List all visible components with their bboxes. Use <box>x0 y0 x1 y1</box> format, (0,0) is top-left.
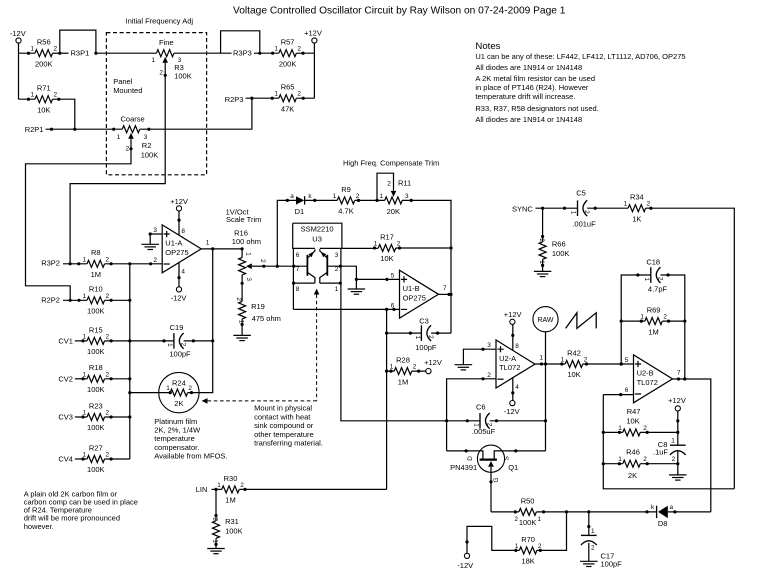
svg-text:C5: C5 <box>576 188 586 197</box>
wire Q1 drain row <box>447 450 478 452</box>
svg-text:47K: 47K <box>281 104 294 113</box>
svg-text:RAW: RAW <box>537 317 553 324</box>
capacitor C6 .005uF <box>479 413 481 429</box>
wire R70.2 up to R50 row <box>537 512 567 551</box>
svg-text:1: 1 <box>472 423 479 427</box>
wire -12V to R56 and R71 <box>19 43 36 99</box>
potentiometer R3 100K (Fine) <box>156 50 174 57</box>
junction dot R16 pin3 <box>241 282 244 285</box>
svg-text:however.: however. <box>24 522 54 531</box>
svg-text:10K: 10K <box>37 105 50 114</box>
svg-text:k: k <box>651 504 655 511</box>
junction dot R31 bottom <box>214 543 217 546</box>
svg-text:100K: 100K <box>552 249 570 258</box>
junction dots R10 row <box>69 299 72 302</box>
sawtooth waveform icon <box>566 313 597 329</box>
svg-text:A 2K metal film resistor can b: A 2K metal film resistor can be used <box>475 74 595 83</box>
junction dots feedback left rail <box>602 431 605 434</box>
svg-text:2: 2 <box>240 482 244 489</box>
svg-text:+12V: +12V <box>170 197 188 206</box>
ground U2-A pin3 <box>455 364 473 366</box>
wire R10.2 to summing node <box>105 299 130 301</box>
junction dots SYNC row <box>541 207 544 210</box>
svg-text:7: 7 <box>443 285 447 292</box>
resistor R57 200K <box>279 50 297 57</box>
svg-text:R10: R10 <box>89 285 103 294</box>
wire RAW column <box>545 332 547 451</box>
svg-text:1M: 1M <box>398 377 408 386</box>
resistor R23 100K <box>87 414 105 421</box>
junction dots R50 row <box>514 510 517 513</box>
junction dot R2 pin2 <box>129 147 132 150</box>
svg-text:4: 4 <box>181 269 185 276</box>
svg-text:R70: R70 <box>521 535 535 544</box>
svg-text:1: 1 <box>335 286 339 293</box>
wire R47 leads <box>603 431 678 433</box>
svg-text:C19: C19 <box>170 323 184 332</box>
svg-text:a: a <box>290 193 294 200</box>
resistor R27 100K <box>87 456 105 463</box>
svg-text:R47: R47 <box>627 407 641 416</box>
svg-text:-12V: -12V <box>504 407 520 416</box>
svg-text:100K: 100K <box>87 385 105 394</box>
junction dots C19 row <box>162 339 165 342</box>
wire R2P3 to R65.1 <box>246 97 279 99</box>
IC box U3 SSM2210 <box>293 223 342 248</box>
thermistor R24 2K (circled) <box>159 372 199 412</box>
junction dots C6 row <box>466 419 469 422</box>
svg-text:2: 2 <box>584 357 588 364</box>
wire U2-A pin3 to ground <box>463 349 496 365</box>
wire R2P2 to R10.1 <box>63 299 87 301</box>
wire C17 tap <box>588 512 590 536</box>
wire Q1 source row <box>505 450 546 452</box>
svg-text:Notes: Notes <box>475 41 500 52</box>
junction dots servo vertical <box>385 332 388 335</box>
wire U2-A pin2 column <box>447 379 496 451</box>
svg-text:sink compound or: sink compound or <box>254 421 314 430</box>
svg-text:100pF: 100pF <box>415 343 437 352</box>
junction dots R17 row <box>373 246 376 249</box>
wire SYNC to C5 <box>536 207 578 209</box>
wire R28 leads <box>387 370 426 372</box>
svg-text:C18: C18 <box>646 258 660 267</box>
svg-text:Available from MFOS.: Available from MFOS. <box>154 452 227 461</box>
wire D1 cathode to R9.1 <box>305 199 338 201</box>
ground below R31 <box>207 548 225 550</box>
svg-text:1: 1 <box>117 134 121 141</box>
wire R3P1 to R3 pin1 <box>96 52 157 54</box>
trimmer R16 100 ohm <box>239 257 246 275</box>
resistor R8 1M <box>87 260 105 267</box>
wire C18 loop <box>621 275 685 379</box>
svg-text:R27: R27 <box>89 443 103 452</box>
junction dot Q1 source <box>514 449 517 452</box>
wire +12V to C8 <box>677 411 679 445</box>
svg-text:1: 1 <box>591 528 595 535</box>
resistor R10 100K <box>87 297 105 304</box>
potentiometer R2 100K (Coarse) <box>122 126 140 133</box>
svg-text:Mount in physical: Mount in physical <box>254 404 312 413</box>
svg-text:2: 2 <box>583 210 590 214</box>
svg-text:3: 3 <box>405 193 409 200</box>
svg-text:D8: D8 <box>658 519 668 528</box>
svg-text:SYNC: SYNC <box>512 205 533 214</box>
junction dots wiper row <box>262 265 265 268</box>
svg-text:S: S <box>503 456 510 460</box>
ground below C17 <box>580 560 598 562</box>
svg-text:a: a <box>670 504 674 511</box>
junction dot U3 pin2 <box>339 265 342 268</box>
wire R16 pin3 to R19 <box>241 275 243 302</box>
junction dots R46 row <box>618 462 621 465</box>
wire R2P1 row to R2 pin1 <box>46 128 123 130</box>
junction dots R42.2 row <box>585 362 588 365</box>
resistor R71 10K <box>35 96 53 103</box>
resistor R30 1M <box>222 486 240 493</box>
svg-text:1: 1 <box>624 201 628 208</box>
resistor R15 100K <box>87 337 105 344</box>
junction dot R70.2 <box>539 549 542 552</box>
svg-text:2: 2 <box>106 452 110 459</box>
resistor R66 100K <box>539 242 546 260</box>
svg-text:2: 2 <box>514 516 518 523</box>
svg-text:TL072: TL072 <box>637 378 658 387</box>
svg-text:6: 6 <box>296 252 300 259</box>
svg-text:R69: R69 <box>647 306 661 315</box>
svg-text:R3P3: R3P3 <box>233 48 252 57</box>
svg-text:2: 2 <box>643 456 647 463</box>
junction dots summing vertical <box>128 299 131 302</box>
wire U3 pin8 lead <box>293 283 315 309</box>
svg-text:in place of PT146 (R24). Howev: in place of PT146 (R24). However <box>475 83 588 92</box>
junction dot D1 anode <box>286 199 289 202</box>
transistor U3 left half <box>306 255 308 276</box>
svg-text:1: 1 <box>30 92 34 99</box>
svg-text:U3: U3 <box>312 234 322 243</box>
svg-text:2: 2 <box>106 371 110 378</box>
svg-text:U2-B: U2-B <box>637 369 654 378</box>
svg-text:2: 2 <box>397 241 401 248</box>
wire U2-B pin6 row <box>603 394 633 396</box>
svg-text:2K: 2K <box>628 471 637 480</box>
resistor R18 100K <box>87 375 105 382</box>
junction dot R30.2 <box>243 488 246 491</box>
junction dot C17 top <box>587 525 590 528</box>
wire R30.2 to servo vertical <box>239 488 386 490</box>
wire R15.2 to summing node <box>105 340 130 342</box>
svg-text:100 ohm: 100 ohm <box>232 237 261 246</box>
junction dot R34.2 <box>649 207 652 210</box>
svg-text:1: 1 <box>83 410 87 417</box>
svg-text:R71: R71 <box>37 84 51 93</box>
capacitor C19 100pF <box>173 333 175 349</box>
svg-text:1: 1 <box>643 278 650 282</box>
svg-text:1: 1 <box>380 193 384 200</box>
svg-text:10K: 10K <box>626 416 639 425</box>
wire R50 row to D8 <box>491 511 656 513</box>
svg-text:C6: C6 <box>476 402 486 411</box>
wire jog over R3P1 <box>60 30 96 53</box>
svg-text:8: 8 <box>181 228 185 235</box>
wire R19 to ground <box>241 319 243 335</box>
wire U1-B pin6 row <box>293 308 399 310</box>
svg-text:-12V: -12V <box>171 294 187 303</box>
junction dots pin6 row <box>385 308 388 311</box>
resistor R70 18K <box>519 547 537 554</box>
junction dots U2-A pin2 <box>481 377 484 380</box>
svg-text:R3P1: R3P1 <box>71 48 90 57</box>
wire R16 wiper row <box>264 265 308 267</box>
junction dots R2P3 row <box>250 97 253 100</box>
svg-text:U1 can be any of these: LF442,: U1 can be any of these: LF442, LF412, LT… <box>475 52 685 61</box>
wire summing node vertical <box>129 264 131 459</box>
svg-text:475 ohm: 475 ohm <box>252 314 281 323</box>
capacitor C18 4.7pF <box>650 267 652 283</box>
junction dot LIN row <box>214 488 217 491</box>
svg-text:100K: 100K <box>87 307 105 316</box>
svg-text:PN4391: PN4391 <box>450 463 477 472</box>
wire CV3 to R23.1 <box>75 416 87 418</box>
junction dots R11.3 column <box>410 199 413 202</box>
capacitor C17 100pF <box>581 534 597 536</box>
ground U3 pin2 <box>348 288 366 290</box>
junction dot Q1 drain <box>465 449 468 452</box>
wire C6 leads <box>447 420 546 422</box>
resistor R9 4.7K <box>337 197 355 204</box>
svg-text:TL072: TL072 <box>499 363 520 372</box>
svg-text:2: 2 <box>356 193 360 200</box>
svg-text:1: 1 <box>83 371 87 378</box>
wire U3 pin6 corner vertical <box>292 248 294 283</box>
svg-text:Initial Frequency Adj: Initial Frequency Adj <box>126 16 194 25</box>
svg-text:R65: R65 <box>281 83 295 92</box>
svg-text:R8: R8 <box>91 248 101 257</box>
svg-text:20K: 20K <box>387 207 400 216</box>
junction dot R71.2 <box>57 98 60 101</box>
junction dot D8 anode <box>673 510 676 513</box>
svg-text:R57: R57 <box>281 38 295 47</box>
wire U1-B output to R11 column <box>439 293 452 295</box>
svg-text:temperature drift will increas: temperature drift will increase. <box>475 92 575 101</box>
svg-text:18K: 18K <box>521 557 534 566</box>
svg-text:Coarse: Coarse <box>121 115 145 124</box>
junction dots R47 row <box>618 431 621 434</box>
resistor R31 100K <box>213 521 220 539</box>
svg-text:+12V: +12V <box>304 28 322 37</box>
resistor R17 10K <box>378 245 396 252</box>
wire R57.2 to +12V <box>296 53 314 98</box>
svg-text:D1: D1 <box>295 207 305 216</box>
junction dot R3 pin2 <box>164 74 167 77</box>
junction dot R19 bottom <box>241 323 244 326</box>
svg-text:1: 1 <box>83 333 87 340</box>
junction dots R69 <box>640 320 643 323</box>
svg-text:4: 4 <box>515 384 519 391</box>
svg-text:1: 1 <box>83 256 87 263</box>
svg-text:1: 1 <box>414 336 421 340</box>
svg-text:3: 3 <box>153 227 157 234</box>
wire CV4 to R27.1 <box>75 458 87 460</box>
wire CV2 to R18.1 <box>75 378 87 380</box>
junction dots R8.1 area <box>69 262 72 265</box>
svg-text:100K: 100K <box>87 347 105 356</box>
resistor R50 100K <box>519 508 537 515</box>
junction dots R18 row <box>81 377 84 380</box>
svg-text:2: 2 <box>126 145 130 152</box>
svg-text:5: 5 <box>625 357 629 364</box>
junction dot R57.2 <box>301 52 304 55</box>
svg-text:R66: R66 <box>552 240 566 249</box>
ground below C8 <box>669 474 687 476</box>
capacitor C3 100pF <box>420 325 422 341</box>
svg-text:1: 1 <box>151 57 155 64</box>
wire R3 pin2 down-left to R3P2 node <box>70 66 165 264</box>
svg-text:3: 3 <box>335 252 339 259</box>
svg-text:LIN: LIN <box>196 485 208 494</box>
svg-text:1M: 1M <box>225 496 235 505</box>
svg-text:1: 1 <box>245 252 252 256</box>
svg-text:2: 2 <box>647 201 651 208</box>
wire R66 to ground <box>542 259 544 271</box>
wire U1-A output row <box>201 249 242 258</box>
svg-text:7: 7 <box>296 266 300 273</box>
svg-text:1M: 1M <box>648 327 658 336</box>
svg-text:3: 3 <box>144 134 148 141</box>
svg-text:7: 7 <box>677 370 681 377</box>
svg-text:100K: 100K <box>87 465 105 474</box>
svg-text:R11: R11 <box>398 179 411 188</box>
svg-text:R33, R37, R58 designators not: R33, R37, R58 designators not used. <box>475 104 598 113</box>
svg-text:200K: 200K <box>279 59 297 68</box>
svg-text:k: k <box>308 193 312 200</box>
svg-text:+12V: +12V <box>668 396 686 405</box>
wire U3 pin1 lead down <box>320 283 447 421</box>
svg-text:2: 2 <box>235 297 242 301</box>
svg-text:1: 1 <box>30 46 34 53</box>
svg-text:-12V: -12V <box>10 29 26 38</box>
wire R23.2 to summing node <box>105 416 130 418</box>
svg-text:1: 1 <box>515 543 519 550</box>
wire CV1 to R15.1 <box>75 340 87 342</box>
resistor R42 10K <box>565 361 583 368</box>
svg-text:10K: 10K <box>567 370 580 379</box>
resistor R34 1K <box>628 205 646 212</box>
junction dot R65.2 <box>302 97 305 100</box>
wire R70.1 jog to -12V <box>467 526 519 553</box>
svg-text:100K: 100K <box>141 151 159 160</box>
svg-text:2: 2 <box>106 256 110 263</box>
junction dot C5.2 <box>594 207 597 210</box>
svg-text:.001uF: .001uF <box>572 219 596 228</box>
svg-text:1: 1 <box>618 456 622 463</box>
wire C3 leads <box>387 332 451 334</box>
capacitor C5 .001uF <box>577 200 579 216</box>
svg-text:1: 1 <box>166 385 170 392</box>
svg-text:2: 2 <box>387 181 391 188</box>
svg-text:R28: R28 <box>396 356 410 365</box>
wire U3 pin2 to ground tap <box>327 266 356 289</box>
junction dot U3 pin8 <box>292 282 295 285</box>
svg-text:2: 2 <box>106 333 110 340</box>
svg-text:SSM2210: SSM2210 <box>301 225 334 234</box>
wire C5 to R34.1 <box>587 207 628 209</box>
transistor U3 right half <box>326 255 328 276</box>
svg-text:U1-A: U1-A <box>165 239 182 248</box>
svg-text:2: 2 <box>259 259 266 263</box>
wire R24.1 to summing node <box>130 392 159 394</box>
junction dots R23 row <box>81 415 84 418</box>
transistor Q1 PN4391 <box>477 445 504 472</box>
svg-text:6: 6 <box>625 387 629 394</box>
junction dots C3 <box>409 332 412 335</box>
op-amp U1-B OP275 <box>400 270 439 318</box>
wire R17.2 to feedback column <box>396 247 451 249</box>
wire U1-A pin3 to ground <box>150 234 162 244</box>
svg-text:CV3: CV3 <box>58 413 73 422</box>
ground U1-A pin3 <box>141 243 159 245</box>
junction dots U2-A output <box>540 362 543 365</box>
svg-text:2: 2 <box>538 543 542 550</box>
svg-text:R2: R2 <box>142 141 152 150</box>
svg-text:1: 1 <box>390 364 394 371</box>
wire D8 anode to output column <box>668 511 711 513</box>
svg-text:5: 5 <box>391 272 395 279</box>
svg-text:-12V: -12V <box>457 561 473 570</box>
svg-text:100K: 100K <box>87 423 105 432</box>
svg-text:1: 1 <box>618 425 622 432</box>
wire R3 pin3 to jog <box>174 52 232 54</box>
junction dots U1-A output <box>211 247 214 250</box>
svg-text:4.7pF: 4.7pF <box>648 284 668 293</box>
junction dot R66 bottom <box>541 264 544 267</box>
svg-text:2: 2 <box>53 46 57 53</box>
wire R9.2 to R11.1 <box>355 199 385 201</box>
svg-text:8: 8 <box>515 343 519 350</box>
wire R71.2 down to R2P1 row <box>53 99 75 129</box>
svg-text:2: 2 <box>106 410 110 417</box>
wire U3 pin3 corner vertical <box>340 248 342 283</box>
wire R56.2 to R3P1 label <box>53 52 69 54</box>
svg-text:2: 2 <box>427 335 434 339</box>
wire jog over R3P3 <box>221 31 260 53</box>
svg-text:OP275: OP275 <box>165 248 188 257</box>
svg-text:2: 2 <box>179 343 186 347</box>
dashed annotation arrow U3 to R24 <box>207 295 316 401</box>
svg-text:1K: 1K <box>632 214 641 223</box>
svg-text:1: 1 <box>537 516 541 523</box>
junction dot U2-B pin6 <box>619 393 622 396</box>
svg-text:1: 1 <box>83 452 87 459</box>
svg-text:2: 2 <box>663 314 667 321</box>
svg-text:1: 1 <box>561 357 565 364</box>
wire U2-B output to D8 column <box>673 379 711 512</box>
junction dots R27 row <box>81 457 84 460</box>
wire R46 leads <box>603 463 678 465</box>
junction dot R31 top <box>214 514 217 517</box>
resistor R28 1M <box>394 368 412 375</box>
potentiometer R11 20K (trim) <box>385 197 403 204</box>
wire feedback box left/bottom <box>603 395 734 489</box>
svg-text:High Freq. Compensate Trim: High Freq. Compensate Trim <box>343 159 439 168</box>
svg-text:R9: R9 <box>341 185 351 194</box>
wire Q1 gate down <box>490 472 492 512</box>
junction dot U3 pin1 <box>339 282 342 285</box>
svg-text:CV2: CV2 <box>58 374 73 383</box>
svg-text:G: G <box>493 477 500 482</box>
resistor R19 475 ohm <box>239 301 246 319</box>
svg-text:Voltage Controlled Oscillator: Voltage Controlled Oscillator Circuit by… <box>233 6 566 17</box>
